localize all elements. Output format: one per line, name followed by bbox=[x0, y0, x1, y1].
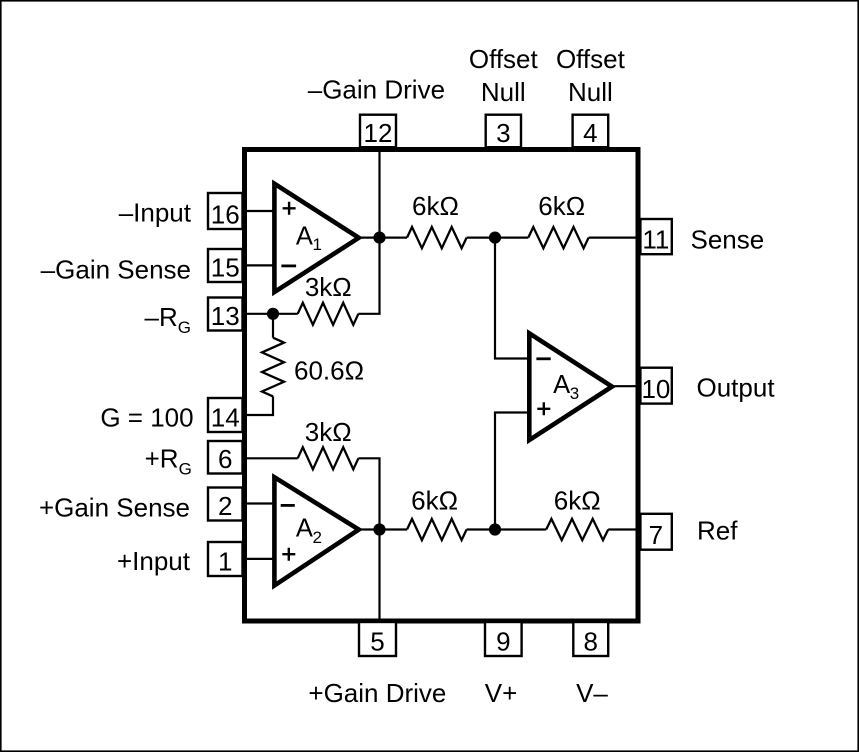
node B junction dot bbox=[489, 232, 501, 244]
wire 6k R1 to node B bbox=[467, 237, 495, 239]
svg-text:6kΩ: 6kΩ bbox=[412, 191, 459, 221]
resistor R3 3k (upper) bbox=[298, 303, 359, 325]
node D junction dot bbox=[489, 523, 501, 535]
op-amp A2 bbox=[274, 477, 358, 585]
wire 6k R6 to pin7 bbox=[608, 528, 640, 530]
wire node B to 6k R2 bbox=[495, 237, 528, 239]
pin 14 box bbox=[208, 398, 243, 433]
svg-text:+Input: +Input bbox=[117, 546, 191, 576]
wire A3 + input down to node D bbox=[495, 413, 529, 530]
resistor R6 6k (bottom right) bbox=[546, 519, 608, 540]
svg-text:9: 9 bbox=[496, 627, 510, 657]
svg-text:–Gain Drive: –Gain Drive bbox=[308, 75, 445, 105]
svg-text:7: 7 bbox=[649, 520, 663, 550]
svg-text:A: A bbox=[296, 223, 313, 251]
svg-text:–Input: –Input bbox=[119, 198, 192, 228]
IC package box U1 bbox=[245, 150, 639, 622]
svg-text:Null: Null bbox=[568, 77, 613, 107]
svg-text:V+: V+ bbox=[485, 678, 518, 708]
pin 16 box bbox=[208, 193, 243, 230]
wire pin1 to A2 + input bbox=[242, 558, 273, 560]
wire 3k R4 right end to pin5 vertical bbox=[358, 457, 380, 459]
wire node D to 6k R6 bbox=[495, 528, 546, 530]
node at A2 output junction dot bbox=[373, 523, 385, 535]
svg-text:V–: V– bbox=[576, 678, 608, 708]
wire pin12 vertical down through A1 output node bbox=[378, 147, 380, 314]
pin 13 box bbox=[208, 298, 243, 332]
wire 3k R3 right end to pin12 vertical bbox=[358, 313, 380, 315]
wire node to 6k R1 bbox=[380, 237, 408, 239]
pin 11 box bbox=[640, 219, 671, 255]
wire pin13 to node at 3k/60.6 bbox=[242, 313, 298, 315]
wire A3 output to pin10 bbox=[613, 385, 640, 387]
svg-text:10: 10 bbox=[641, 374, 670, 404]
resistor R4 3k (lower) bbox=[298, 447, 359, 469]
svg-text:A: A bbox=[296, 514, 313, 542]
svg-text:2: 2 bbox=[313, 528, 322, 547]
pin 15 box bbox=[208, 249, 243, 283]
svg-text:16: 16 bbox=[211, 200, 240, 230]
svg-text:1: 1 bbox=[313, 235, 322, 254]
resistor R7 60.6 ohm (vertical) bbox=[262, 338, 284, 397]
svg-text:1: 1 bbox=[218, 547, 232, 577]
svg-text:5: 5 bbox=[370, 627, 384, 657]
resistor R5 6k (bottom left) bbox=[407, 519, 467, 540]
svg-text:Output: Output bbox=[697, 373, 776, 403]
pin 6 box bbox=[208, 441, 243, 474]
svg-text:60.6Ω: 60.6Ω bbox=[294, 356, 364, 386]
node A junction dot bbox=[267, 308, 279, 320]
pin 12 box bbox=[360, 115, 396, 148]
svg-text:Offset: Offset bbox=[556, 44, 626, 74]
svg-text:Null: Null bbox=[481, 77, 526, 107]
wire pin16 to A1 + input bbox=[242, 210, 273, 212]
svg-text:12: 12 bbox=[364, 118, 393, 148]
pin 9 box bbox=[485, 622, 522, 657]
pin 10 box bbox=[640, 368, 671, 404]
wire pin15 to A1 - input bbox=[242, 264, 273, 266]
svg-text:3kΩ: 3kΩ bbox=[305, 417, 352, 447]
svg-text:6kΩ: 6kΩ bbox=[411, 485, 458, 515]
pin 1 box bbox=[208, 542, 243, 577]
pin 5 box bbox=[359, 622, 396, 657]
svg-text:11: 11 bbox=[642, 225, 669, 255]
svg-text:13: 13 bbox=[211, 301, 240, 331]
op-amp A3 bbox=[529, 333, 612, 440]
pin 2 box bbox=[208, 488, 243, 522]
svg-text:Sense: Sense bbox=[691, 224, 765, 254]
pin 4 box bbox=[573, 115, 609, 148]
wire pin5 vertical up through A2 output node bbox=[378, 458, 380, 622]
svg-text:Offset: Offset bbox=[469, 44, 539, 74]
svg-text:3: 3 bbox=[570, 384, 579, 403]
pin 3 box bbox=[486, 115, 521, 148]
wire A1 output to node bbox=[360, 237, 380, 239]
pin 8 box bbox=[573, 622, 608, 657]
svg-text:6kΩ: 6kΩ bbox=[554, 485, 601, 515]
wire 6k R5 to node D bbox=[467, 528, 495, 530]
svg-text:6kΩ: 6kΩ bbox=[538, 191, 585, 221]
wire 60.6 resistor bottom to pin14 bbox=[242, 396, 273, 415]
wire node to 6k R5 bbox=[380, 528, 408, 530]
op-amp A1 bbox=[274, 184, 358, 292]
svg-text:A: A bbox=[553, 371, 570, 399]
wire pin2 to A2 - input bbox=[242, 502, 273, 504]
wire pin6 to 3k R4 bbox=[242, 457, 298, 459]
svg-text:2: 2 bbox=[218, 491, 232, 521]
svg-text:3kΩ: 3kΩ bbox=[305, 272, 352, 302]
svg-text:G = 100: G = 100 bbox=[100, 402, 193, 432]
svg-text:Ref: Ref bbox=[697, 516, 738, 546]
wire node B down to A3 - input bbox=[495, 238, 529, 359]
svg-text:3: 3 bbox=[496, 118, 510, 148]
svg-text:8: 8 bbox=[583, 627, 597, 657]
svg-text:+Gain Drive: +Gain Drive bbox=[308, 678, 446, 708]
pin 7 box bbox=[640, 514, 671, 550]
resistor R1 6k (top left) bbox=[407, 227, 467, 248]
svg-text:4: 4 bbox=[583, 118, 597, 148]
wire 6k R2 to pin11 bbox=[589, 237, 640, 239]
wire node A down to 60.6 resistor bbox=[272, 314, 274, 338]
wire A2 output to node bbox=[360, 528, 380, 530]
resistor R2 6k (top right) bbox=[528, 227, 588, 248]
svg-text:+Gain Sense: +Gain Sense bbox=[39, 492, 190, 522]
svg-text:14: 14 bbox=[211, 403, 240, 433]
svg-text:15: 15 bbox=[211, 253, 240, 283]
svg-text:–Gain Sense: –Gain Sense bbox=[41, 255, 191, 285]
svg-text:6: 6 bbox=[218, 444, 232, 474]
node at A1 output junction dot bbox=[373, 232, 385, 244]
